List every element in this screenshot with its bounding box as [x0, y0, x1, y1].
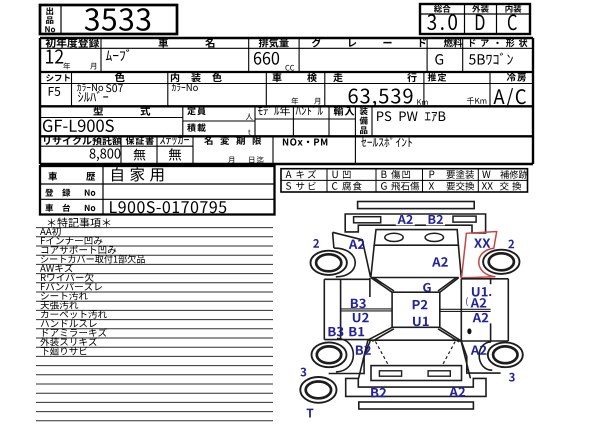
code B2 left quarter panel — [356, 345, 371, 354]
left front wheel arch — [334, 248, 355, 277]
headlight panel — [374, 230, 458, 246]
left front fender — [333, 232, 371, 277]
code G windshield — [423, 283, 431, 292]
code A2 left fender — [349, 239, 365, 248]
row3 labels — [93, 106, 103, 115]
remark line 18 — [36, 383, 273, 385]
remark: 外装スリキズ — [40, 337, 97, 346]
remark line 11 — [36, 319, 273, 321]
remark: AA初 — [40, 227, 61, 236]
scratch mark right front door — [466, 297, 468, 306]
remark line 16 — [36, 365, 273, 367]
front bumper — [345, 214, 485, 233]
remark: 下廻りサビ — [41, 347, 88, 356]
car top bar (front) — [358, 202, 475, 209]
remark line 21 — [36, 411, 273, 413]
dot mark right quarter — [467, 328, 471, 334]
remark: ドアミラーキズ — [43, 328, 107, 337]
right body panel — [459, 279, 509, 341]
remark line 1 — [36, 227, 273, 229]
remark: カーペット汚れ — [41, 310, 107, 319]
left quarter outline — [329, 341, 371, 374]
tailgate — [371, 366, 462, 381]
row1 values — [46, 49, 63, 63]
code 3 rear-right wheel — [509, 373, 515, 382]
code B2 rear bumper — [371, 388, 386, 397]
right door seam — [440, 309, 491, 311]
row4 labels — [44, 136, 122, 145]
left body panel — [324, 279, 370, 339]
tail light left — [379, 371, 401, 376]
row2 values — [49, 87, 60, 96]
front bumper vent right — [453, 216, 476, 222]
rear-left wheel arch — [336, 339, 353, 372]
hood side lines — [371, 245, 462, 278]
code A2 right front door — [471, 298, 487, 307]
right quarter outline — [461, 341, 500, 373]
headlight left — [385, 233, 403, 241]
front door leading edge — [369, 278, 371, 297]
rear deck line — [368, 339, 461, 341]
history box — [40, 166, 275, 215]
bottom bar (rear) — [359, 402, 474, 409]
right front fender marked for replacement (red) — [462, 232, 497, 278]
rear-right wheel — [488, 342, 523, 367]
roof panel — [392, 292, 440, 327]
code XX right fender — [474, 238, 490, 247]
remark line 19 — [36, 392, 273, 394]
remark line 22 — [36, 420, 273, 422]
remark line 12 — [36, 328, 273, 330]
remark line 15 — [36, 355, 273, 357]
rear-right wheel arch — [479, 342, 492, 370]
remark: Fバンパーズレ — [41, 282, 102, 291]
code A2 rear bumper — [449, 387, 465, 396]
headlight right — [425, 233, 443, 241]
code P2 roof — [413, 300, 428, 309]
remark line 13 — [36, 337, 273, 339]
remark: Fインナー凹み — [41, 237, 102, 245]
remark: AWキズ — [40, 264, 73, 273]
remark: ハンドルスレ — [41, 320, 97, 328]
remark line 9 — [36, 300, 273, 302]
remark line 7 — [36, 282, 273, 284]
rating box — [420, 4, 530, 34]
remark line 8 — [36, 291, 273, 293]
remark: 天張汚れ — [40, 301, 78, 310]
spare tire — [300, 377, 336, 403]
code U1 roof — [413, 317, 429, 326]
lot number box — [40, 5, 177, 34]
tail light right — [428, 371, 450, 376]
remark line 20 — [36, 401, 273, 403]
windshield pillars — [371, 278, 459, 293]
damage legend table — [281, 169, 528, 192]
code 2 front-right wheel — [508, 240, 514, 249]
remark line 5 — [36, 263, 273, 265]
remark line 4 — [36, 254, 273, 256]
code A2 on bumper — [396, 216, 415, 226]
remark line 17 — [36, 374, 273, 376]
row1 headers — [45, 38, 99, 48]
front bumper vent left — [354, 217, 381, 223]
rear bumper — [346, 378, 486, 396]
code U2 left rear door — [353, 313, 369, 323]
remark line 10 — [36, 309, 273, 311]
code U1 right front door — [472, 287, 488, 296]
main table borders — [40, 37, 533, 40]
remark line 3 — [36, 245, 273, 247]
remark: コアサポート凹み — [42, 245, 117, 254]
code A2 right quarter panel — [471, 345, 487, 354]
front-left wheel — [311, 251, 347, 275]
codes B3 B1 left quarter — [328, 327, 343, 337]
code A2 right rear door — [473, 313, 489, 322]
left door seam — [341, 309, 393, 311]
code B2 on bumper — [426, 216, 445, 226]
code A2 hood — [432, 257, 448, 266]
remark: シート汚れ — [41, 291, 88, 300]
front-right wheel — [483, 250, 519, 274]
cowl line — [371, 277, 459, 279]
row2 headers — [46, 74, 70, 81]
code B3 left front door — [351, 299, 366, 309]
code 3 rear-left wheel — [300, 368, 306, 377]
rear window hidden edges — [375, 342, 455, 365]
remark: Rワイパー欠 — [41, 273, 94, 282]
rear-left wheel — [312, 342, 347, 367]
code T spare tire — [307, 409, 314, 418]
remarks header — [48, 218, 111, 228]
remark line 14 — [36, 346, 273, 348]
rear body sides — [359, 340, 471, 378]
remark line 2 — [36, 236, 273, 238]
rear pillars — [368, 327, 461, 342]
remark: シートカバー取付1部欠品 — [41, 254, 145, 263]
remark line 6 — [36, 273, 273, 275]
code 2 front-left wheel — [313, 239, 319, 248]
